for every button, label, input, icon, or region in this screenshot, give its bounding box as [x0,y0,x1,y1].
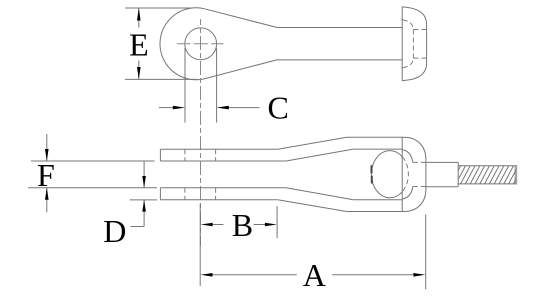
dim D top arrowhead [142,176,146,188]
top view: cap outline [402,7,426,81]
top view: cap hidden horizontal lower [413,57,426,59]
bottom view: hole hidden line upper [413,161,426,163]
bottom view: shank bottom line [426,186,458,188]
dim B left arrowhead [201,223,213,227]
dim C right arrowhead [217,106,229,110]
dim B right extension line [276,206,278,238]
dim F top arrowhead [45,149,49,161]
dim F / dim D shared extension line [28,187,157,189]
svg-text:E: E [129,26,149,62]
bottom view: top outer flat [347,136,404,138]
bottom view: bottom prong bottom edge [160,199,277,201]
top view: cap hidden arc upper [403,20,414,30]
dim C right arrow line [228,107,259,109]
bottom view: bottom inner slope [286,188,353,200]
top view: shank bottom line [277,59,403,61]
dim A right arrowhead [413,273,425,277]
bottom view: bottom outer slope [278,200,347,212]
dim F bottom arrowhead [45,188,49,200]
dim E arrowhead down [137,67,141,79]
vertical centerline through hole and both views [200,19,202,246]
bottom view: end face line [401,137,403,211]
bottom view: top inner flat [353,148,402,150]
dim B left line [213,224,224,226]
dim B right arrowhead [265,223,277,227]
svg-text:B: B [232,207,253,243]
top view: upper tangent line [205,9,277,28]
dim D bottom arrow line [143,200,145,227]
bottom view: top socket mouth arc [403,150,413,163]
dim C left arrowhead [173,106,185,110]
bottom view: top inner slope [286,149,353,161]
bottom view: socket solid outline [371,151,402,198]
dim E arrowhead up [137,8,141,20]
bottom view: bottom socket mouth arc [403,187,413,200]
cable outline [458,166,516,184]
svg-text:A: A [303,257,326,293]
bottom view: top prong top edge [160,148,277,150]
top view: cap face line [401,7,403,81]
dim E extension line bottom [125,78,197,80]
bottom view: bottom outer flat [347,211,404,213]
dim F bottom arrow line [46,188,48,213]
bottom view: socket hidden right arc [402,157,408,192]
cable end shade [515,166,517,184]
dim C extension line right [216,48,218,123]
dim B right line [254,224,266,226]
top view: hole horizontal centerline [177,43,224,45]
top view: lower tangent line [205,60,276,79]
bottom view: bottom inner flat [353,199,402,201]
dim B left extension line (centerline extension) [199,204,201,287]
top view: cap hidden arc lower [403,58,414,68]
bottom view: top outer slope [278,137,347,149]
bottom view: hole hidden line lower [413,186,426,188]
dim A left arrowhead [201,273,213,277]
dim D lower extension line [130,199,157,201]
shank-cable joint edge [457,162,459,186]
bottom view: prong hole hidden edge left [184,149,186,200]
top view: cap hidden horizontal upper [413,29,426,31]
cable hatching [451,166,523,184]
bottom view: prong hole hidden edge right [215,149,217,200]
dim E extension line top [125,7,193,9]
bottom view: bottom prong top edge [160,187,286,189]
top view: shank top line [277,27,402,29]
top view: eye hole circle [185,28,217,60]
bottom view: top prong bottom edge [160,160,286,162]
svg-text:F: F [37,157,55,193]
dim D leader elbow [131,226,145,228]
bottom view: bottom prong left edge [159,188,161,200]
bottom view: shank top line [426,161,458,163]
dim F extension line top [31,160,155,162]
dim A right extension line [425,215,427,290]
svg-text:C: C [268,89,289,125]
bottom view: outer rounded end [404,137,426,211]
dim A left line [213,274,297,276]
dim D bottom arrowhead [142,200,146,212]
top view: eye outer arc [160,8,205,80]
dim C left arrow line [159,107,174,109]
dim A right line [332,274,413,276]
dim E line lower segment [138,61,140,80]
dim C extension line left [184,48,186,123]
dim D top arrow line [143,162,145,188]
dim F top arrow line [46,134,48,161]
svg-text:D: D [103,213,126,249]
bottom view: top prong left edge [159,149,161,161]
top view: cap hidden vertical [412,30,414,59]
dim E line upper segment [138,8,140,27]
bottom view: socket left flat mark [371,165,373,183]
